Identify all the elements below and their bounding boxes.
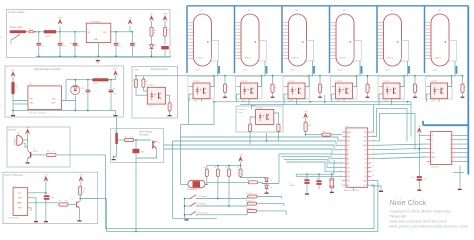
wire opto right pin 6 <box>448 76 452 87</box>
driver cell box 1 <box>188 77 215 100</box>
svg-text:Please visit: Please visit <box>390 215 407 219</box>
svg-text:Photoresistor: Photoresistor <box>187 188 197 191</box>
svg-text:Y1: Y1 <box>289 182 291 184</box>
wire cathode bus D <box>380 112 416 114</box>
svg-text:1 THRU 10: 1 THRU 10 <box>244 58 252 60</box>
voltage regulator IC1 <box>86 23 111 42</box>
wire opto right pin 4 <box>353 76 357 87</box>
svg-text:10u: 10u <box>77 45 80 47</box>
ground diodes <box>266 191 268 193</box>
svg-text:R23: R23 <box>167 30 170 32</box>
svg-text:IN-12: IN-12 <box>386 70 390 72</box>
svg-text:D10: D10 <box>347 181 350 183</box>
resistor R13 pullup <box>239 169 242 176</box>
transistor T3 <box>30 152 32 157</box>
resistor R1 HV feed <box>11 82 14 95</box>
svg-text:T6: T6 <box>158 142 160 144</box>
power +5V arrow K155ID1 <box>417 128 421 133</box>
wire HV bottom rail <box>13 109 116 111</box>
wire converter top rail <box>66 79 92 81</box>
svg-text:R9: R9 <box>323 131 325 133</box>
wire regulator ground pin <box>98 43 100 57</box>
ground switch bank <box>186 218 188 221</box>
wire decimal opto pins <box>252 105 256 110</box>
svg-text:19: 19 <box>372 162 374 164</box>
wire tube to driver 6 <box>454 61 456 76</box>
svg-text:10k: 10k <box>83 191 86 193</box>
svg-text:10u: 10u <box>134 45 137 47</box>
svg-text:R7: R7 <box>59 201 61 203</box>
driver cell box 3 <box>283 77 310 100</box>
svg-text:PC-817X: PC-817X <box>288 81 296 83</box>
wire opto bottom 2 <box>248 99 250 105</box>
svg-text:10k: 10k <box>214 167 217 169</box>
wire opto left pins 2 <box>237 86 241 88</box>
resistor R11 anode <box>413 84 416 93</box>
anode resistor bottom bar 5 <box>414 93 416 97</box>
optocoupler T6 symbol <box>152 141 154 149</box>
transistor T4 HV switch <box>115 133 118 145</box>
svg-text:S1 “Dimmer”: S1 “Dimmer” <box>197 196 208 198</box>
svg-text:2: 2 <box>450 140 451 142</box>
svg-text:6: 6 <box>450 157 451 159</box>
wire tube to driver 1 <box>217 61 219 76</box>
ground buzzer <box>27 158 29 162</box>
svg-text:13: 13 <box>340 184 342 186</box>
driver cell box 6 <box>426 77 453 100</box>
wire bank line B3 <box>284 159 343 167</box>
section box Brightness Boost <box>132 66 178 118</box>
svg-text:+5V: +5V <box>417 126 421 128</box>
svg-text:D9: D9 <box>347 185 349 187</box>
buzzer SP1 <box>17 136 23 146</box>
svg-text:100n: 100n <box>118 45 122 47</box>
nixie connector box N5 <box>401 40 409 61</box>
svg-text:D3: D3 <box>365 154 367 156</box>
wire opto right pin 2 <box>258 76 262 87</box>
svg-text:1 THRU 10: 1 THRU 10 <box>339 58 347 60</box>
svg-text:18: 18 <box>372 166 374 168</box>
wire converter OUT to diode node <box>61 96 75 101</box>
svg-text:High Voltage Generator: High Voltage Generator <box>34 67 61 71</box>
svg-text:25: 25 <box>372 135 374 137</box>
svg-text:+12V: +12V <box>58 17 64 19</box>
svg-text:BC547: BC547 <box>33 151 38 153</box>
photoresistor LDR1 <box>188 180 205 188</box>
ground brightness boost <box>169 111 171 113</box>
resistor R3 <box>135 79 138 87</box>
wire bottom net B <box>107 231 378 233</box>
capacitor C13 <box>44 195 50 197</box>
svg-text:D11: D11 <box>347 176 350 178</box>
wire bottom ground rail power supply <box>36 55 171 57</box>
svg-text:1N4007: 1N4007 <box>45 36 51 38</box>
svg-text:OPT7: OPT7 <box>148 106 152 108</box>
nixie box divider 3 <box>281 6 283 73</box>
svg-text:R18 10k: R18 10k <box>246 200 252 202</box>
svg-text:B: B <box>432 140 433 142</box>
svg-text:RST: RST <box>364 141 367 143</box>
wire opto bottom 6 <box>438 99 440 102</box>
svg-text:MC7805CT: MC7805CT <box>92 21 103 23</box>
wire left return vertical <box>180 125 182 185</box>
svg-text:TX0: TX0 <box>364 132 367 134</box>
wire tube to driver 4 <box>359 61 361 76</box>
svg-text:+5V: +5V <box>79 174 83 176</box>
wire opto left pins 5 <box>379 86 383 88</box>
fuse F1 <box>29 31 33 33</box>
ground Y1 <box>331 190 333 192</box>
svg-text:S3 “Forward”: S3 “Forward” <box>197 212 208 214</box>
nixie tube N5 <box>384 14 402 66</box>
ground power supply rail <box>38 56 40 58</box>
wire inductor to +170V node <box>109 79 116 81</box>
svg-text:5: 5 <box>450 153 451 155</box>
optocoupler OPT6 <box>431 83 448 99</box>
switch S3 <box>191 211 197 215</box>
svg-text:+5V: +5V <box>239 155 243 157</box>
capacitor C2 <box>59 32 61 44</box>
capacitor C5 <box>131 32 133 44</box>
capacitor C3 <box>74 32 76 44</box>
frame tick marks <box>0 37 2 174</box>
svg-text:+12V: +12V <box>163 14 169 16</box>
svg-text:PC-817X: PC-817X <box>430 81 438 83</box>
svg-text:U3: U3 <box>346 126 348 128</box>
wire tube to driver 5 <box>407 61 409 76</box>
DCF module U4 <box>13 188 28 216</box>
svg-text:100n: 100n <box>62 45 66 47</box>
ground HV generator <box>115 110 117 115</box>
wire 4N35 down <box>135 140 137 149</box>
svg-text:1k: 1k <box>167 32 169 34</box>
svg-text:1k: 1k <box>274 87 276 89</box>
section box Buzzer <box>7 127 70 167</box>
svg-text:C13: C13 <box>44 194 47 196</box>
diode D6 reverse protection <box>44 30 56 33</box>
svg-text:Nixie Clock: Nixie Clock <box>390 198 427 207</box>
power +5V arrow DCF B <box>79 176 83 181</box>
svg-text:10k: 10k <box>203 167 206 169</box>
wire cathode bus B <box>240 104 411 106</box>
power +5V arrow switch pullups <box>239 157 243 162</box>
svg-text:C2: C2 <box>62 43 64 45</box>
svg-text:10k: 10k <box>225 167 228 169</box>
power +12V arrow LED branch <box>163 16 167 21</box>
wire cathode bus A <box>213 101 411 103</box>
nixie bus right vertical <box>467 6 469 175</box>
svg-text:C8: C8 <box>113 88 115 90</box>
svg-text:R19 10k: R19 10k <box>246 208 252 210</box>
svg-text:Power Jack: Power Jack <box>10 26 23 29</box>
wire T5 base <box>68 204 76 206</box>
wire opto emitter down <box>156 148 158 158</box>
wire bank line B2 <box>281 157 342 163</box>
svg-text:17: 17 <box>372 171 374 173</box>
nixie box divider 5 <box>376 6 378 73</box>
svg-text:PC-817X: PC-817X <box>256 108 264 110</box>
svg-text:D7: D7 <box>365 172 367 174</box>
svg-text:K155ID1: K155ID1 <box>431 167 440 169</box>
resistor R15 decimal left <box>249 124 252 132</box>
svg-text:12: 12 <box>340 179 342 181</box>
svg-text:16 MHz: 16 MHz <box>289 185 295 187</box>
svg-text:Power Supply: Power Supply <box>9 10 26 14</box>
wire LDR left <box>181 183 188 185</box>
resistor R9 anode <box>318 84 321 93</box>
wire base resistor <box>31 154 45 156</box>
svg-text:1k: 1k <box>172 105 174 107</box>
svg-text:OUT: OUT <box>103 32 107 34</box>
svg-text:OUT: OUT <box>52 99 56 101</box>
wire staircase MCU right <box>371 105 373 132</box>
wire mcu gnd down <box>352 187 354 190</box>
svg-text:R22: R22 <box>154 30 157 32</box>
resistor R22 <box>150 27 153 36</box>
svg-text:1k: 1k <box>154 32 156 34</box>
svg-text:10k: 10k <box>131 136 134 138</box>
wire gate node <box>134 139 151 141</box>
svg-text:D13: D13 <box>347 167 350 169</box>
resistor R11 pullup <box>216 169 219 176</box>
svg-text:OPT6: OPT6 <box>431 101 435 103</box>
svg-text:Activation: Activation <box>139 133 150 136</box>
ground MCU <box>371 186 381 191</box>
wire reset node <box>331 134 342 136</box>
svg-text:RX1: RX1 <box>364 136 367 138</box>
nixie connector box N1 <box>211 40 219 61</box>
optocoupler OPT5 <box>383 83 400 99</box>
svg-text:R14: R14 <box>247 179 250 181</box>
power +5V arrow regulator output <box>115 31 117 33</box>
optocoupler U5 brightness <box>147 87 165 104</box>
wire opto left pins 4 <box>332 86 336 88</box>
resistor R10 anode <box>366 84 369 93</box>
bus left vertical stub <box>422 121 424 125</box>
wire regulator output rail <box>111 31 133 33</box>
svg-text:www.github.com/mikrocharade/de: www.github.com/mikrocharade/de/nixie-clo… <box>390 224 470 228</box>
wire switch rows drop <box>217 176 219 198</box>
mcu pin numbers <box>340 131 374 186</box>
svg-text:T5: T5 <box>71 199 73 201</box>
wire buzzer net vertical <box>105 155 107 229</box>
svg-text:C3: C3 <box>70 43 72 45</box>
junction main rail <box>34 31 36 33</box>
capacitor C11 <box>316 180 321 182</box>
anode resistor bottom bar 1 <box>224 93 226 97</box>
wire R1 to converter VIN <box>13 94 28 100</box>
crystal Y1 <box>330 178 334 188</box>
wire bank line B4 <box>286 162 342 172</box>
svg-text:1k: 1k <box>53 151 55 153</box>
wire net L2 left vertical <box>172 141 174 219</box>
svg-text:24: 24 <box>372 140 374 142</box>
nixie box divider 2 <box>234 6 236 73</box>
svg-text:11: 11 <box>340 175 342 177</box>
svg-text:DCF 77 Receiver: DCF 77 Receiver <box>5 174 24 177</box>
wire driver1 down <box>188 99 190 125</box>
wire left return <box>181 124 215 126</box>
nixie connector box N2 <box>259 40 267 61</box>
nixie tube N4 <box>336 14 354 66</box>
svg-text:PC-817X: PC-817X <box>383 81 391 83</box>
wire K155 gnd rail <box>453 171 464 173</box>
power +5V arrow LED branch <box>150 16 154 21</box>
svg-text:4N35: 4N35 <box>141 151 145 153</box>
svg-text:+5V: +5V <box>304 111 308 113</box>
svg-text:Pollin DCF1: Pollin DCF1 <box>9 218 19 220</box>
svg-text:J1: J1 <box>10 43 12 45</box>
svg-text:RST: RST <box>347 141 350 143</box>
optocoupler OPT4 <box>336 83 353 99</box>
svg-text:26: 26 <box>372 131 374 133</box>
resistor R9 <box>322 133 331 136</box>
wire opto left pins 6 <box>427 86 431 88</box>
svg-text:D5: D5 <box>270 187 272 189</box>
wire K155 outputs to bus <box>456 134 467 136</box>
wire switch rows <box>185 198 191 200</box>
wire C13 down <box>45 200 47 221</box>
wire brightness feed <box>135 75 137 77</box>
wire +170V anode rail <box>136 75 463 77</box>
wire tube to driver 3 <box>312 61 314 76</box>
wire diode junction <box>266 177 268 180</box>
optocoupler OPT2 <box>241 83 258 99</box>
svg-text:1k: 1k <box>417 87 419 89</box>
wire long net L3 <box>164 145 343 150</box>
svg-text:C14: C14 <box>411 177 414 179</box>
svg-text:C1: C1 <box>41 43 43 45</box>
ground HV activation <box>113 157 115 159</box>
optocoupler OPT8 decimal <box>256 110 274 125</box>
wire opto bottom 3 <box>296 99 298 105</box>
svg-text:IN-12: IN-12 <box>433 70 437 72</box>
wire row A to stair <box>262 183 279 185</box>
capacitor C1 <box>38 32 40 44</box>
ground DCF B <box>78 219 80 221</box>
wire bus A drop <box>213 102 215 125</box>
nixie connector box N6 <box>449 40 457 61</box>
svg-text:1: 1 <box>450 135 451 137</box>
nixie tube N1 <box>194 14 212 66</box>
resistor R17 row <box>248 195 257 198</box>
svg-text:+170V: +170V <box>112 68 119 70</box>
anode resistor bottom bar 6 <box>462 93 464 97</box>
LED2 power indicator <box>164 36 166 44</box>
svg-text:1 THRU 10: 1 THRU 10 <box>434 58 442 60</box>
svg-text:IN-12: IN-12 <box>338 70 342 72</box>
bus to K155ID1 horizontal <box>423 124 468 126</box>
svg-text:4u7: 4u7 <box>82 93 85 95</box>
DC-DC converter U2 <box>28 86 62 110</box>
svg-text:CTRL: CTRL <box>51 103 55 105</box>
svg-text:R20: R20 <box>47 151 50 153</box>
svg-text:R1: R1 <box>16 85 18 87</box>
junction bus A <box>213 101 215 103</box>
anode resistor bottom bar 4 <box>367 93 369 97</box>
driver IC U6 K155ID1 <box>431 132 452 165</box>
power +12V arrow <box>59 26 61 32</box>
power +5V arrow buzzer <box>26 129 30 134</box>
indicator 4N35 <box>133 149 140 154</box>
wire tube to driver 2 <box>264 61 266 76</box>
switch S2 <box>191 203 197 207</box>
svg-text:F1: F1 <box>29 28 31 30</box>
section box DCF77 Receiver <box>3 172 98 223</box>
svg-text:0: 0 <box>432 161 433 163</box>
svg-text:+170V: +170V <box>133 69 139 71</box>
svg-text:Copyright © 2018, Martin Hrabo: Copyright © 2018, Martin Hrabovsky <box>390 210 452 214</box>
wire DCF data vertical <box>98 198 107 200</box>
nixie box divider 4 <box>329 6 331 73</box>
resistor R4 <box>142 79 145 87</box>
svg-text:10k: 10k <box>308 125 311 127</box>
power +5V arrow DCF A <box>44 176 48 181</box>
svg-text:OPT1: OPT1 <box>194 101 198 103</box>
nixie box divider 6 <box>424 6 426 73</box>
resistor R7 anode <box>223 84 226 93</box>
svg-text:100k: 100k <box>65 201 69 203</box>
svg-text:10k: 10k <box>237 167 240 169</box>
nixie connector box N3 <box>306 40 314 61</box>
wire +12V to resistor <box>12 77 14 82</box>
svg-text:16: 16 <box>372 175 374 177</box>
nixie connector box N4 <box>354 40 362 61</box>
section box High Voltage Generator <box>5 66 124 117</box>
wire opto bottom 4 <box>343 99 345 102</box>
svg-text:SP1: SP1 <box>17 133 20 135</box>
wire T4 emitter to ground <box>116 144 118 157</box>
svg-text:4: 4 <box>450 148 451 150</box>
wire opto right pin 5 <box>400 76 404 87</box>
svg-text:1k: 1k <box>464 87 466 89</box>
nixie box divider 1 <box>186 6 188 73</box>
wire opto right pin 1 <box>210 76 214 87</box>
wire opto bottom 5 <box>391 99 393 105</box>
resistor R12 anode <box>461 84 464 93</box>
ground K155 <box>459 187 461 190</box>
svg-text:1 THRU 10: 1 THRU 10 <box>196 58 204 60</box>
svg-text:C10: C10 <box>304 177 307 179</box>
svg-text:U2: U2 <box>29 84 31 86</box>
transistor T5 <box>76 201 79 208</box>
resistor R12 pullup <box>228 169 231 176</box>
wire crystal top rail <box>296 173 334 175</box>
nixie tube N3 <box>289 14 307 66</box>
bus stubs under tubes <box>218 66 220 74</box>
svg-text:1 THRU 10: 1 THRU 10 <box>291 58 299 60</box>
driver cell box 5 <box>378 77 405 100</box>
wire bottom switch common line <box>173 218 217 220</box>
svg-text:D6: D6 <box>365 167 367 169</box>
nixie tube N2 <box>241 14 259 66</box>
diode D1 HV <box>71 85 80 94</box>
section box Power Supply <box>7 10 171 58</box>
wire bus to K155 drop <box>410 102 412 137</box>
anode resistor bottom bar 3 <box>319 93 321 97</box>
svg-text:+5V: +5V <box>44 174 48 176</box>
wire K155 vcc <box>418 133 420 177</box>
svg-text:1k: 1k <box>322 87 324 89</box>
svg-text:+12V: +12V <box>10 70 15 72</box>
capacitor C8 <box>110 80 112 90</box>
svg-text:L1: L1 <box>96 76 98 78</box>
capacitor C4 <box>115 32 117 44</box>
svg-text:C4: C4 <box>118 43 120 45</box>
svg-text:100n: 100n <box>423 179 427 181</box>
wire decimal drop to L2 <box>266 133 268 141</box>
resistor R19 row <box>247 209 256 212</box>
